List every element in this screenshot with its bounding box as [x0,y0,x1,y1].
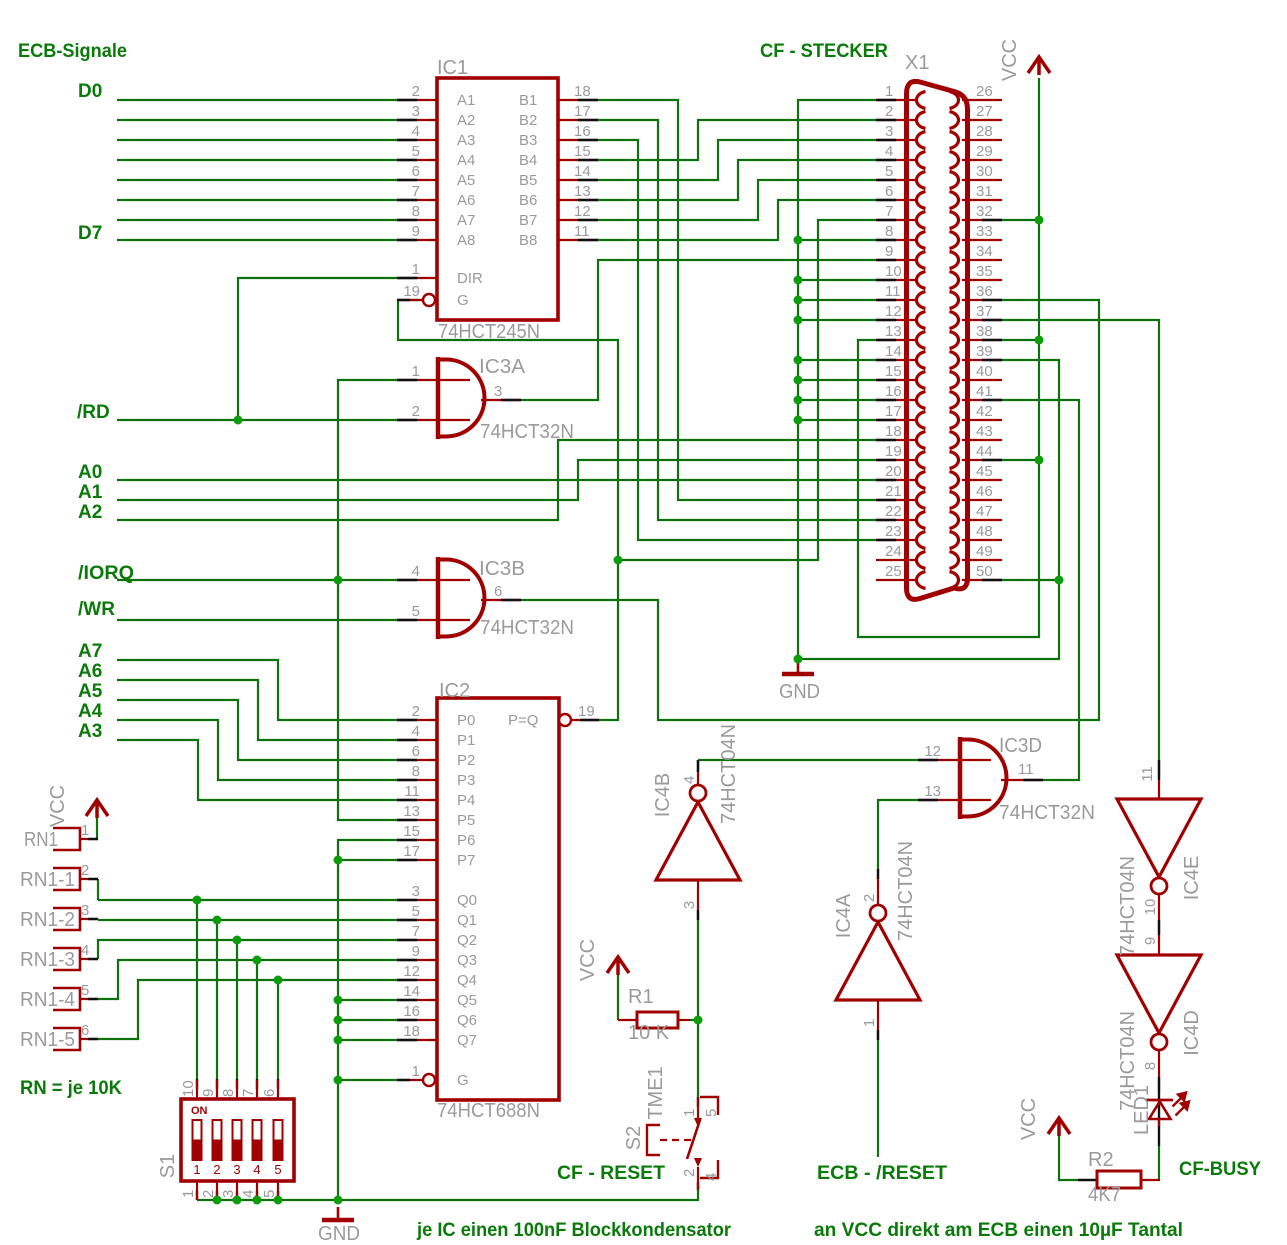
wire VCC branch to X1.44 [1002,459,1039,461]
wire GND2 net vertical [338,840,397,1200]
wire D6 row to IC1 A7 [117,219,397,221]
svg-text:1: 1 [81,822,89,839]
junction GND2 Q5 [334,996,343,1005]
svg-text:4: 4 [81,942,89,959]
svg-text:32: 32 [976,203,993,220]
junction GND symbol [794,655,803,664]
resistor RN1-1 [53,868,80,890]
svg-text:A7: A7 [457,212,475,229]
svg-text:74HCT32N: 74HCT32N [480,617,574,639]
S2 actuator [647,1125,660,1155]
svg-text:IC4A: IC4A [833,893,855,938]
svg-text:Q4: Q4 [457,972,477,989]
junction GND X1.14 [794,356,803,365]
wire S1 column x=217 [216,920,218,1079]
svg-text:38: 38 [976,323,993,340]
IC4B pin stubs [697,760,699,784]
junction /RD-DIR [234,416,243,425]
wire GND branch to X1 pin at y=240 [798,239,876,241]
svg-text:B8: B8 [519,232,537,249]
svg-text:12: 12 [403,963,420,980]
svg-text:13: 13 [924,783,941,800]
svg-text:IC3A: IC3A [479,356,526,378]
LED1 [1146,1099,1173,1102]
junction GND bottom [334,1196,343,1205]
svg-text:9: 9 [1142,937,1159,945]
wire net /WE (IC3B out to X1.36) [521,300,1099,720]
junction Q3 tap [253,956,262,965]
wire net /CE1 branch to X1.7 [618,220,876,560]
svg-text:74HCT04N: 74HCT04N [718,724,740,824]
junction GND X1.11 [794,296,803,305]
svg-text:11: 11 [885,283,901,300]
svg-text:8: 8 [1142,1062,1159,1070]
svg-text:B1: B1 [519,92,537,109]
svg-text:IC3B: IC3B [479,558,525,580]
svg-text:18: 18 [403,1023,420,1040]
VCC symbol at R1 [607,957,629,975]
wire /IORQ to IC3B.4 [117,579,397,581]
wire GND branch to X1.50 [1002,579,1059,581]
wire GND2 branch Q7 [338,1039,397,1041]
svg-text:P5: P5 [457,812,475,829]
wire D7 row to IC1 A8 [117,239,397,241]
svg-text:A3: A3 [78,721,102,742]
wire VCC branch to X1.38 [1002,339,1039,341]
junction GND X1.50 [1055,576,1064,585]
S2 pin 4 contact [700,1160,718,1178]
RN1 pin stubs [80,838,98,840]
junction R1/S2/IC4B [694,1016,703,1025]
svg-text:5: 5 [412,903,420,920]
svg-text:3: 3 [412,103,420,120]
resistor RN1-4 [53,988,80,1010]
wire net Q4 row [98,980,397,1039]
svg-text:17: 17 [574,103,591,120]
svg-text:ECB - /RESET: ECB - /RESET [817,1163,947,1184]
wire LED1 cathode to R2 [1158,1146,1160,1180]
op-amp IC1 74HCT245N body [437,78,558,320]
wire VCC to R1 left [617,975,619,1020]
svg-text:1: 1 [412,261,420,278]
wire net Q0 row [98,899,397,901]
svg-text:A0: A0 [78,462,102,483]
svg-text:1: 1 [412,363,420,380]
switch S1 element at x=217 [213,1120,222,1160]
junction /CE1 branch [614,556,623,565]
svg-text:P3: P3 [457,772,475,789]
resistor RN1-2 [53,908,80,930]
X1 socket contacts right [950,92,959,589]
svg-text:11: 11 [1139,766,1156,782]
svg-text:A1: A1 [78,482,103,503]
svg-text:IC4D: IC4D [1181,1010,1203,1056]
svg-text:4: 4 [253,1162,260,1177]
svg-text:17: 17 [403,843,420,860]
svg-text:7: 7 [885,203,893,220]
svg-text:2: 2 [412,83,420,100]
junction S1 pin4 [253,1196,262,1205]
wire D4 row to IC1 A5 [117,179,397,181]
svg-text:A8: A8 [457,232,475,249]
wire RESET net X1.41 to IC3D out [1002,400,1079,780]
junction S1 pin5 [274,1196,283,1205]
svg-text:42: 42 [976,403,993,420]
wire S1 column x=197 [196,900,198,1079]
wire net B5 (IC1.14 to X1.3) [598,140,876,180]
svg-text:1: 1 [193,1162,200,1177]
wire net B3 (IC1.16 to X1.23) [598,140,876,540]
svg-text:74HCT04N: 74HCT04N [1117,856,1139,956]
svg-text:4: 4 [703,1173,720,1181]
op-amp IC3A 74HCT32N gate [438,360,485,437]
wire net G / P=Q [398,300,618,720]
IC3B pin stubs [397,579,470,581]
wire VCC branch to X1.32 [1002,219,1039,221]
svg-text:14: 14 [574,163,591,180]
svg-text:4: 4 [240,1190,257,1198]
wire GND2 branch Q6 [338,1019,397,1021]
svg-text:GND: GND [318,1223,360,1245]
svg-text:4: 4 [412,723,420,740]
wire net /OE (IC3A out to X1.9) [521,260,876,400]
junction GND X1.15 [794,376,803,385]
resistor RN1-5 [53,1028,80,1050]
svg-text:19: 19 [578,703,595,720]
junction S1 pin2 [213,1196,222,1205]
wire D5 row to IC1 A6 [117,199,397,201]
svg-text:37: 37 [976,303,993,320]
wire VCC to R2 left [1059,1136,1078,1180]
wire IC4B out stub [697,760,699,772]
svg-text:5: 5 [703,1109,720,1117]
wire net Q1 row [98,919,397,921]
switch S2 TME1 [697,1097,699,1118]
transistor IC4A inverter 74HCT04N [836,922,920,1000]
svg-text:10: 10 [1142,899,1159,916]
junction GND2 P7 [334,856,343,865]
svg-text:3: 3 [885,123,893,140]
svg-text:10 K: 10 K [628,1022,670,1044]
wire /RD branch to IC1 DIR [238,278,397,420]
resistor RN1 [53,828,80,850]
junction GND X1.12 [794,316,803,325]
wire IC4B in to R1/S2 node [697,920,699,1020]
svg-text:3: 3 [412,883,420,900]
wire GND2 branch P7 [338,859,397,861]
wire A2 to X1.18 [117,440,876,520]
svg-text:22: 22 [885,503,902,520]
wire GND branch to X1 pin at y=420 [798,419,876,421]
wire D3 row to IC1 A4 [117,159,397,161]
svg-text:26: 26 [976,83,993,100]
svg-text:RN1: RN1 [24,829,58,851]
svg-text:15: 15 [885,363,902,380]
svg-text:44: 44 [976,443,993,460]
svg-text:49: 49 [976,543,993,560]
wire GND branch to X1 pin at y=280 [798,279,876,281]
wire IC4B out to IC3D.12 [698,759,918,761]
svg-text:A4: A4 [457,152,475,169]
svg-text:RN1-2: RN1-2 [20,909,75,931]
junction GND X1.10 [794,276,803,285]
svg-text:1: 1 [180,1190,197,1198]
svg-text:RN1-4: RN1-4 [20,989,75,1011]
svg-text:74HCT32N: 74HCT32N [480,421,574,443]
svg-text:50: 50 [976,563,993,580]
svg-text:2: 2 [412,703,420,720]
svg-text:VCC: VCC [999,39,1021,81]
X1 pin stubs right [962,99,1002,101]
svg-text:A1: A1 [457,92,475,109]
svg-text:VCC: VCC [47,785,69,827]
connector X1 CF socket body [907,81,968,599]
svg-text:3: 3 [494,383,502,400]
svg-text:Q3: Q3 [457,952,477,969]
IC4D pin stubs [1158,1050,1160,1092]
wire A0 to X1.20 [117,479,876,481]
svg-text:CF - STECKER: CF - STECKER [760,41,888,62]
wire net B1 (IC1.18 to X1.21) [598,100,876,500]
X1 socket contacts left [917,92,926,589]
svg-text:2: 2 [412,403,420,420]
svg-text:34: 34 [976,243,993,260]
svg-text:Q7: Q7 [457,1032,477,1049]
svg-text:3: 3 [233,1162,240,1177]
svg-text:4: 4 [412,563,420,580]
junction GND2 G [334,1076,343,1085]
svg-text:30: 30 [976,163,993,180]
VCC symbol top right [1028,57,1050,75]
svg-text:G: G [457,1072,469,1089]
junction GND2 Q6 [334,1016,343,1025]
switch S1 element at x=197 [193,1120,202,1160]
svg-text:IC4B: IC4B [652,773,674,817]
svg-text:R2: R2 [1088,1149,1114,1171]
svg-text:/RD: /RD [77,402,110,423]
wire net B8 (IC1.11 to X1.6) [598,200,876,240]
svg-text:19: 19 [885,443,902,460]
wire net Q2 row [98,940,397,959]
svg-text:S2: S2 [623,1126,645,1150]
IC1 G pin bubble [423,294,435,306]
svg-text:/IORQ: /IORQ [78,563,134,584]
svg-text:4: 4 [885,143,893,160]
junction /IORQ [334,576,343,585]
svg-text:8: 8 [885,223,893,240]
svg-text:1: 1 [681,1109,698,1117]
ground symbol below X1 [797,661,800,674]
junction Q4 tap [274,976,283,985]
svg-text:A5: A5 [457,172,475,189]
svg-text:5: 5 [274,1162,281,1177]
svg-text:18: 18 [885,423,902,440]
svg-text:6: 6 [412,163,420,180]
svg-text:74HCT32N: 74HCT32N [999,802,1095,824]
svg-text:45: 45 [976,463,993,480]
svg-text:8: 8 [412,763,420,780]
wire node to S2.1 [697,1020,699,1097]
svg-text:je IC einen 100nF Blockkondens: je IC einen 100nF Blockkondensator [416,1220,732,1241]
svg-text:46: 46 [976,483,993,500]
svg-text:4: 4 [681,776,698,784]
svg-text:16: 16 [885,383,902,400]
svg-text:5: 5 [412,143,420,160]
svg-text:A7: A7 [78,641,102,662]
svg-text:3: 3 [681,901,698,909]
svg-text:13: 13 [574,183,591,200]
wire A6 to IC2 P1 [117,680,397,740]
wire S1 column x=257 [256,960,258,1079]
wire A4 to IC2 P3 [117,720,397,780]
junction GND2 Q7 [334,1036,343,1045]
svg-text:74HCT688N: 74HCT688N [437,1100,540,1122]
svg-text:R1: R1 [628,986,654,1008]
junction VCC X1.32 [1035,216,1044,225]
svg-text:6: 6 [261,1089,278,1097]
svg-text:A6: A6 [457,192,475,209]
transistor IC4D inverter 74HCT04N [1117,955,1201,1033]
svg-text:8: 8 [412,203,420,220]
svg-text:6: 6 [494,583,502,600]
wire net Q3 row [98,960,397,999]
svg-text:B6: B6 [519,192,537,209]
svg-text:VCC: VCC [577,939,599,981]
wire R1 right to node [690,1019,698,1021]
junction GND X1.17 [794,416,803,425]
svg-text:2: 2 [81,862,89,879]
svg-text:25: 25 [885,563,902,580]
junction Q0 tap [193,896,202,905]
svg-text:13: 13 [885,323,902,340]
svg-text:1: 1 [861,1019,878,1027]
svg-text:11: 11 [1018,761,1034,778]
svg-text:P4: P4 [457,792,475,809]
IC3D pin stubs [918,759,991,761]
svg-text:5: 5 [885,163,893,180]
svg-text:74HCT04N: 74HCT04N [895,841,917,941]
svg-text:36: 36 [976,283,993,300]
svg-text:A2: A2 [457,112,475,129]
svg-text:P6: P6 [457,832,475,849]
svg-text:D7: D7 [78,223,102,244]
junction GND X1.16 [794,396,803,405]
svg-text:15: 15 [403,823,420,840]
junction VCC X1.38 [1035,336,1044,345]
wire S1 column x=237 [236,940,238,1079]
transistor IC4E inverter 74HCT04N [1117,799,1201,877]
wire S1 column x=278 [277,980,279,1079]
wire GND branch to X1 pin at y=360 [798,359,876,361]
svg-text:18: 18 [574,83,591,100]
wire D0 bus row to IC1 A1 [117,99,397,101]
switch S1 DIP body [181,1099,294,1181]
wire RN1.1 to VCC arrow [96,818,98,839]
wire ECB-/RESET to IC4A.1 [877,1040,879,1157]
VCC symbol at RN1 [86,800,108,818]
svg-text:12: 12 [574,203,591,220]
svg-text:5: 5 [412,603,420,620]
svg-text:Q6: Q6 [457,1012,477,1029]
svg-text:11: 11 [574,223,590,240]
wire A1 to X1.19 [117,460,876,500]
switch S1 element at x=278 [274,1120,283,1160]
wire IC4A out to IC3D.13 [878,800,918,869]
wire A5 to IC2 P2 [117,700,397,760]
svg-text:47: 47 [976,503,993,520]
IC2 P=Q pin bubble [559,714,571,726]
svg-text:P7: P7 [457,852,475,869]
svg-text:35: 35 [976,263,993,280]
svg-text:16: 16 [574,123,591,140]
wire GND2 branch Q5 [338,999,397,1001]
wire GND branch to X1 pin at y=400 [798,399,876,401]
svg-text:40: 40 [976,363,993,380]
svg-text:TME1: TME1 [645,1066,667,1119]
svg-text:2: 2 [200,1190,217,1198]
wire GND net to X1.39 [798,360,1059,659]
svg-text:74HCT245N: 74HCT245N [438,321,540,343]
S1 pin stubs x=217 [216,1080,218,1099]
wire RDY/BSY net X1.37 to IC4E.11 [1002,320,1159,760]
S1 pin stubs x=197 [196,1080,198,1099]
wire VCC net (arrow to X1.13) [858,78,1039,637]
svg-text:9: 9 [412,943,420,960]
svg-text:RN1-3: RN1-3 [20,949,75,971]
svg-text:29: 29 [976,143,993,160]
svg-text:4: 4 [412,123,420,140]
wire GND branch to X1 pin at y=300 [798,299,876,301]
svg-text:Q1: Q1 [457,912,477,929]
svg-text:21: 21 [885,483,902,500]
junction VCC X1.44 [1035,456,1044,465]
wire /RD to IC3A.2 [117,419,397,421]
svg-text:41: 41 [976,383,993,400]
svg-text:P=Q: P=Q [508,712,538,729]
svg-text:DIR: DIR [457,270,483,287]
svg-text:P0: P0 [457,712,475,729]
S1 pin stubs x=237 [236,1080,238,1099]
svg-text:/WR: /WR [78,599,115,620]
junction GND X1.8 [794,236,803,245]
wire /WR to IC3B.5 [117,619,397,621]
svg-text:10: 10 [180,1080,197,1097]
junction Q1 tap [213,916,222,925]
svg-text:an VCC direkt am ECB einen 10µ: an VCC direkt am ECB einen 10µF Tantal [814,1220,1183,1241]
svg-text:D0: D0 [78,81,102,102]
wire net B2 (IC1.17 to X1.22) [598,120,876,520]
svg-text:IC4E: IC4E [1181,856,1203,900]
svg-text:A3: A3 [457,132,475,149]
svg-text:P1: P1 [457,732,475,749]
switch S1 element at x=257 [253,1120,262,1160]
wire S1 bottom bus to S2.2 [197,1190,698,1200]
svg-text:5: 5 [81,982,89,999]
op-amp IC2 74HCT688N body [437,698,559,1100]
svg-text:A6: A6 [78,661,102,682]
svg-text:2: 2 [861,894,878,902]
svg-text:12: 12 [885,303,902,320]
svg-text:43: 43 [976,423,993,440]
X1 pin stubs left [876,99,916,101]
svg-text:12: 12 [924,743,941,760]
svg-text:Q0: Q0 [457,892,477,909]
svg-text:6: 6 [885,183,893,200]
svg-text:IC1: IC1 [437,57,468,79]
svg-text:ON: ON [191,1105,208,1117]
svg-text:14: 14 [403,983,420,1000]
wire /IORQ branch to IC2 P5 [338,580,397,820]
